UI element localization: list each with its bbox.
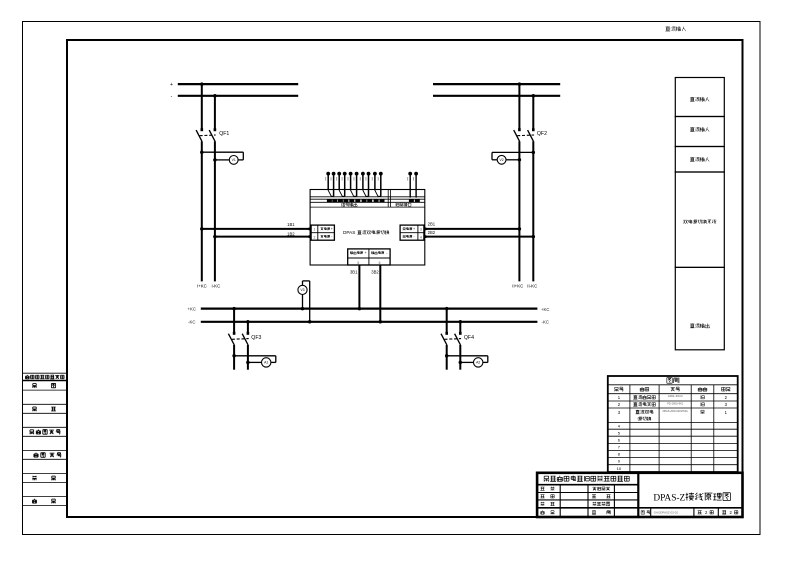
reviewer field label <box>540 495 554 498</box>
svg-text:+: + <box>365 251 367 255</box>
svg-text:GM3L-63C/3: GM3L-63C/3 <box>668 394 683 398</box>
date field label <box>541 510 555 514</box>
flow box: DC input 3 <box>675 147 724 173</box>
bus label +KC right <box>541 307 549 312</box>
scale field label <box>592 510 610 514</box>
wire QF4 pole2 drop from bus -KC <box>459 322 461 333</box>
svg-text:DPAS-Z/DC220V/63A: DPAS-Z/DC220V/63A <box>663 409 688 413</box>
wire node 1B1: QF1 pole1 to U1 pin1 <box>200 227 311 231</box>
title block frame <box>537 473 742 517</box>
DPAS dual-power transfer device U1 (outline) <box>310 190 425 266</box>
wire QF3 pole2 outgoing <box>247 345 249 370</box>
ammeter A1 connection loop <box>232 354 275 364</box>
bus -KC (output negative bus) <box>201 321 538 323</box>
design drafting field label <box>593 502 610 506</box>
sheet number: sheet 2 <box>722 510 738 515</box>
junction dot bus R+ / QF2 pole1 <box>518 82 522 86</box>
U1 signal output wires (10) with contacts <box>328 174 381 197</box>
svg-text:1: 1 <box>313 228 315 232</box>
U1 terminal strip rows <box>310 190 425 208</box>
svg-text:4: 4 <box>420 235 422 239</box>
svg-text:-KC: -KC <box>542 320 549 325</box>
designer field label <box>541 502 555 506</box>
bus label -KC left <box>188 320 195 325</box>
svg-text:2B1: 2B1 <box>428 222 436 227</box>
voltmeter V1 <box>229 156 238 165</box>
wire QF2 pole1 drop from bus R+ <box>518 84 520 129</box>
voltmeter V3 <box>298 285 307 294</box>
svg-text:QF2: QF2 <box>537 131 547 137</box>
svg-text:+KC: +KC <box>188 307 196 312</box>
svg-text:10: 10 <box>617 466 622 471</box>
wire QF2 pole1 to node II+KC <box>518 141 520 281</box>
svg-text:V3: V3 <box>300 288 304 292</box>
wire node 3B2: U1 pin6 to bus -KC <box>379 265 383 324</box>
U1 device name label DPAS DC dual power transfer <box>343 230 389 235</box>
legend rows 4-10 serial numbers <box>617 424 622 472</box>
U1 main-supply terminal box (pins 1,2) <box>311 225 334 240</box>
junction dot bus -KC / QF3 pole2 <box>246 320 250 324</box>
svg-text:5: 5 <box>357 261 359 265</box>
voltmeter V2 connection loop <box>492 151 535 162</box>
junction dot bus -KC / QF4 pole2 <box>459 320 463 324</box>
wire QF3 pole2 drop from bus -KC <box>247 322 249 333</box>
comm wire tiny id labels <box>407 177 414 181</box>
svg-text:-KC: -KC <box>188 320 195 325</box>
breaker QF2 (2-pole DC breaker) <box>514 128 547 141</box>
node label II-KC <box>527 283 537 288</box>
breaker QF3 (2-pole DC feeder breaker) <box>228 332 261 345</box>
svg-text:A1: A1 <box>264 361 268 365</box>
approver field label <box>540 487 554 491</box>
drawing number value <box>654 511 679 515</box>
breaker QF1 (2-pole DC breaker) <box>196 128 229 141</box>
svg-text:+: + <box>413 227 415 231</box>
flow box: DC output <box>675 267 724 349</box>
svg-text:I+KC: I+KC <box>197 283 207 288</box>
svg-text:6: 6 <box>379 261 381 265</box>
bus R- (right incoming negative bus) <box>433 95 560 97</box>
U1 label: comm interface <box>396 203 411 207</box>
svg-text:2B2: 2B2 <box>428 230 436 235</box>
left signature strip rows <box>23 373 67 505</box>
svg-text:QF3: QF3 <box>251 335 261 341</box>
proofread field label <box>592 495 611 498</box>
node label 3B2 <box>371 270 379 275</box>
bus label -KC right <box>542 320 549 325</box>
wire QF4 pole2 outgoing <box>459 345 461 370</box>
drawing number field label <box>641 511 650 515</box>
bus L- (left incoming negative bus) <box>171 94 299 100</box>
node label 2B2 <box>428 230 436 235</box>
specialty lead field label <box>593 487 610 491</box>
node label I+KC <box>197 283 207 288</box>
svg-text:1B2: 1B2 <box>287 231 295 236</box>
node label II+KC <box>512 283 523 288</box>
junction dot bus +KC / QF4 pole1 <box>445 307 449 311</box>
U1 output terminal box (pins 5,6) <box>348 249 390 265</box>
svg-text:3B2: 3B2 <box>371 270 379 275</box>
company name: Nanjing Guogao Electric Automation Co Ltd <box>544 476 630 482</box>
node label I-KC <box>212 283 221 288</box>
junction dot bus L- / QF1 pole2 <box>213 94 217 98</box>
wire node 1B2: QF1 pole2 to U1 pin2 <box>213 235 311 239</box>
svg-text:+: + <box>331 227 333 231</box>
svg-text:QF1: QF1 <box>219 131 229 137</box>
bus L+ (left incoming positive bus) <box>170 82 298 88</box>
ammeter A2 connection loop <box>445 354 488 364</box>
svg-text:I-KC: I-KC <box>212 283 221 288</box>
wire QF3 pole1 outgoing <box>233 345 235 370</box>
U1 comm port wires (2) <box>410 174 416 197</box>
ammeter A1 <box>262 358 271 367</box>
wire QF1 pole2 drop from bus L- <box>214 96 216 129</box>
svg-text:PD-195U-9K1: PD-195U-9K1 <box>667 401 684 405</box>
legend header row <box>614 387 730 391</box>
junction dot bus R- / QF2 pole2 <box>532 94 536 98</box>
svg-text:GAODPASZ-02-02: GAODPASZ-02-02 <box>654 511 679 515</box>
svg-text:A2: A2 <box>476 361 480 365</box>
svg-text:2: 2 <box>313 235 315 239</box>
node label 3B1 <box>350 270 358 275</box>
svg-text:+KC: +KC <box>541 307 549 312</box>
voltmeter V1 connection loop <box>200 150 243 161</box>
svg-text:3B1: 3B1 <box>350 270 358 275</box>
comm wire terminal dots <box>408 172 418 198</box>
svg-text:V1: V1 <box>232 158 236 162</box>
legend row 2: DC voltmeter <box>618 401 728 407</box>
wire QF4 pole1 outgoing <box>446 345 448 370</box>
wire QF2 pole2 drop from bus R- <box>532 96 534 129</box>
junction dot bus +KC / QF3 pole1 <box>232 307 236 311</box>
svg-text:DPAS: DPAS <box>343 230 355 235</box>
breaker QF4 (2-pole DC feeder breaker) <box>441 332 474 345</box>
signal wire terminal dots <box>326 172 382 176</box>
wire QF2 pole2 to node II-KC <box>532 141 534 281</box>
wire QF4 pole1 drop from bus +KC <box>446 309 448 333</box>
voltmeter V2 <box>497 155 506 164</box>
bus label +KC left <box>188 307 196 312</box>
sheet inner border <box>67 40 743 517</box>
wire node 2B1: U1 pin3 to QF2 pole1 <box>424 227 521 231</box>
node label 2B1 <box>428 222 436 227</box>
flow box: dual power transfer system <box>675 172 724 267</box>
junction dot bus L+ / QF1 pole1 <box>200 82 204 86</box>
sheet count: 2 sheets total <box>698 510 714 515</box>
node label 1B1 <box>287 222 295 227</box>
U1 signal terminal blocks (black) <box>327 200 385 203</box>
ammeter A2 <box>474 358 483 367</box>
top margin label DC input <box>665 26 685 31</box>
bus R+ (right incoming positive bus) <box>433 83 560 85</box>
wire QF1 pole1 to node I+KC <box>201 141 203 281</box>
legend row 1: DC breaker <box>618 394 728 400</box>
wire QF3 pole1 drop from bus +KC <box>233 309 235 333</box>
U1 label: signal output <box>342 203 357 207</box>
wire node 2B2: U1 pin4 to QF2 pole2 <box>424 235 535 239</box>
svg-text:+: + <box>170 82 173 88</box>
wire QF1 pole2 to node I-KC <box>214 141 216 281</box>
drawing title: DPAS-Z wiring principle diagram <box>653 493 730 504</box>
svg-text:V2: V2 <box>500 158 504 162</box>
svg-text:QF4: QF4 <box>464 335 474 341</box>
svg-text:3: 3 <box>420 228 422 232</box>
flow box: DC input 2 <box>675 117 724 147</box>
legend title <box>667 377 679 383</box>
voltmeter V3 connection loop <box>301 281 312 324</box>
U1 comm terminal blocks (black) <box>409 200 420 203</box>
flow box: DC input 1 <box>675 78 724 117</box>
signal wire tiny id labels <box>325 177 379 181</box>
bus +KC (output positive bus) <box>201 308 538 310</box>
wire QF1 pole1 drop from bus L+ <box>201 84 203 129</box>
svg-text:II-KC: II-KC <box>527 283 537 288</box>
legend table frame <box>608 376 738 472</box>
svg-text:II+KC: II+KC <box>512 283 523 288</box>
U1 standby-supply terminal box (pins 3,4) <box>400 225 424 240</box>
wire node 3B1: U1 pin5 to bus +KC <box>358 265 362 310</box>
legend row 3: DC dual-power transfer device <box>618 409 728 421</box>
svg-text:1B1: 1B1 <box>287 222 295 227</box>
svg-text:DPAS-Z: DPAS-Z <box>653 493 685 503</box>
node label 1B2 <box>287 231 295 236</box>
